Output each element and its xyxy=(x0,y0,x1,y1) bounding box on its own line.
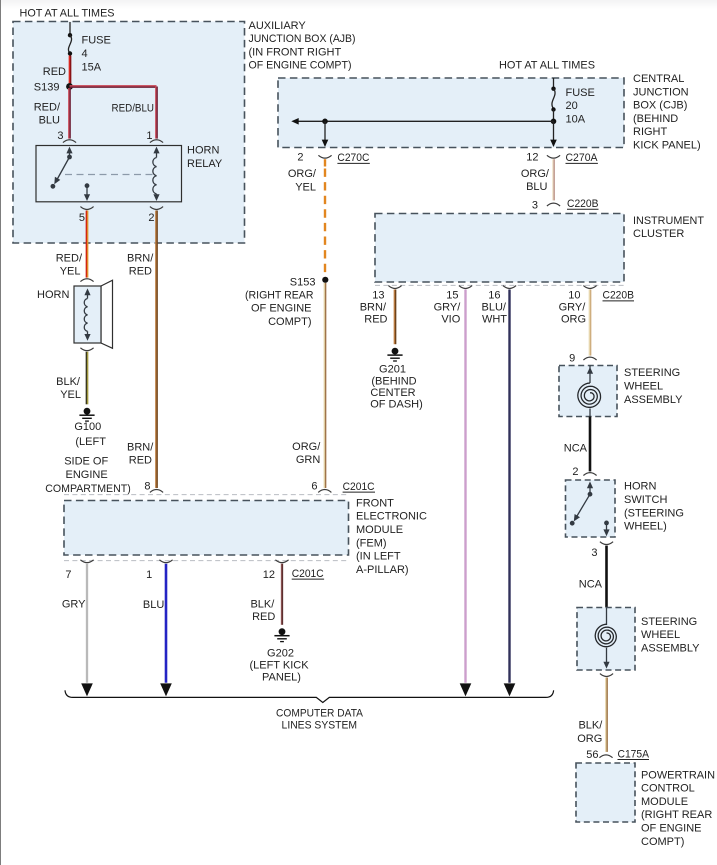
svg-text:16: 16 xyxy=(488,290,500,302)
svg-text:COMPT): COMPT) xyxy=(641,836,684,848)
pin 6 FEM xyxy=(311,481,331,493)
wire ORG/YEL (dashed) xyxy=(324,159,326,276)
ground G202 xyxy=(274,628,289,641)
front electronic module box (dashed) xyxy=(64,501,349,556)
FEM bottom connector line xyxy=(64,560,349,562)
relay coil xyxy=(153,147,160,201)
svg-text:HORN: HORN xyxy=(624,481,656,493)
FEM top connector line xyxy=(64,494,349,496)
svg-text:2: 2 xyxy=(572,466,578,478)
clockspring 2 xyxy=(595,608,616,669)
svg-text:BLK/: BLK/ xyxy=(56,376,81,388)
wire CJB bus left xyxy=(291,118,553,125)
node CJB branch xyxy=(322,119,328,125)
splice S139 xyxy=(34,82,73,94)
svg-text:1: 1 xyxy=(146,130,152,142)
label GRY xyxy=(62,598,86,610)
svg-text:G201: G201 xyxy=(379,363,406,375)
wire fuse20 down xyxy=(550,121,557,147)
svg-text:ELECTRONIC: ELECTRONIC xyxy=(356,511,427,523)
svg-text:(IN LEFT: (IN LEFT xyxy=(356,551,401,563)
label C270A xyxy=(566,152,599,164)
horn coil xyxy=(84,288,90,340)
svg-text:RED: RED xyxy=(129,266,152,278)
pin 56 connector C175A xyxy=(586,749,612,761)
label BLU xyxy=(143,599,164,611)
svg-text:GRN: GRN xyxy=(296,454,321,466)
svg-text:NCA: NCA xyxy=(579,579,603,591)
svg-text:COMPARTMENT): COMPARTMENT) xyxy=(45,483,131,495)
svg-text:3: 3 xyxy=(532,200,538,212)
pin 2 horn switch xyxy=(572,466,596,478)
svg-text:CLUSTER: CLUSTER xyxy=(633,228,684,240)
svg-text:7: 7 xyxy=(65,569,71,581)
IC bottom connector line xyxy=(375,284,624,286)
wire RED/YEL xyxy=(86,211,87,278)
ground G201 xyxy=(387,348,402,361)
AJB name label xyxy=(249,20,356,72)
svg-text:5: 5 xyxy=(79,212,85,224)
label POWERTRAIN CONTROL MODULE xyxy=(641,769,715,848)
pin 15 xyxy=(446,286,472,302)
svg-text:JUNCTION: JUNCTION xyxy=(633,86,689,98)
svg-text:9: 9 xyxy=(569,353,575,365)
svg-text:ENGINE: ENGINE xyxy=(66,469,108,481)
svg-text:RED/: RED/ xyxy=(56,252,83,264)
label BLK/YEL xyxy=(56,376,81,401)
svg-text:(RIGHT REAR: (RIGHT REAR xyxy=(245,289,314,301)
junction box CJB (dashed) xyxy=(278,78,624,148)
svg-text:BLK/: BLK/ xyxy=(250,598,275,610)
svg-text:S139: S139 xyxy=(34,82,60,94)
svg-text:(BEHIND: (BEHIND xyxy=(633,113,678,125)
pin 2 connector C270C xyxy=(297,152,331,164)
svg-text:SWITCH: SWITCH xyxy=(624,494,667,506)
wire feed to fuse 20 xyxy=(553,78,555,89)
label RED/BLU right xyxy=(112,103,155,115)
label C201C bottom xyxy=(292,568,324,580)
svg-text:WHEEL: WHEEL xyxy=(641,629,680,641)
label RED/YEL xyxy=(56,252,83,277)
wire ORG/BLU xyxy=(553,159,554,200)
svg-text:2: 2 xyxy=(148,212,154,224)
powertrain control module box (dashed) xyxy=(576,763,635,822)
svg-text:LINES SYSTEM: LINES SYSTEM xyxy=(282,719,358,731)
CJB name label xyxy=(633,73,701,152)
svg-text:ORG/: ORG/ xyxy=(521,168,550,180)
svg-text:OF ENGINE COMPT): OF ENGINE COMPT) xyxy=(249,60,352,72)
svg-text:CENTRAL: CENTRAL xyxy=(633,73,684,85)
wire GRY xyxy=(86,564,88,683)
svg-text:S153: S153 xyxy=(290,276,316,288)
svg-text:HOT AT ALL TIMES: HOT AT ALL TIMES xyxy=(499,59,595,71)
relay contact to pin 5 xyxy=(84,183,90,201)
svg-text:ORG/: ORG/ xyxy=(292,441,321,453)
horn switch contacts xyxy=(570,481,610,536)
arrow GRY/VIO to data lines xyxy=(460,683,472,696)
svg-text:RED: RED xyxy=(364,313,387,325)
svg-text:C220B: C220B xyxy=(603,290,635,302)
pin 16 xyxy=(488,286,516,302)
svg-text:BRN/: BRN/ xyxy=(127,441,154,453)
svg-text:(RIGHT REAR: (RIGHT REAR xyxy=(641,809,712,821)
svg-text:ASSEMBLY: ASSEMBLY xyxy=(624,394,683,406)
svg-text:10A: 10A xyxy=(566,113,586,125)
svg-text:ORG/: ORG/ xyxy=(288,168,317,180)
label NCA 1 xyxy=(564,442,588,454)
svg-text:YEL: YEL xyxy=(60,266,81,278)
svg-text:C201C: C201C xyxy=(292,568,324,580)
svg-text:HORN: HORN xyxy=(187,145,219,157)
pin 3 horn relay xyxy=(57,130,76,142)
brace computer data lines xyxy=(65,690,554,702)
svg-text:(FEM): (FEM) xyxy=(356,537,387,549)
svg-text:4: 4 xyxy=(82,48,88,60)
svg-text:RED: RED xyxy=(252,611,275,623)
svg-text:ASSEMBLY: ASSEMBLY xyxy=(641,642,700,654)
wire BLK/RED xyxy=(281,564,282,625)
horn connector top xyxy=(80,279,93,282)
svg-text:G202: G202 xyxy=(267,647,294,659)
SWA2 connector bottom xyxy=(600,674,613,677)
svg-text:OF ENGINE: OF ENGINE xyxy=(251,303,312,315)
arrow GRY to data lines xyxy=(81,683,93,696)
svg-text:FUSE: FUSE xyxy=(82,35,111,47)
svg-text:(LEFT KICK: (LEFT KICK xyxy=(249,659,309,671)
svg-text:FRONT: FRONT xyxy=(356,497,394,509)
svg-text:(IN FRONT RIGHT: (IN FRONT RIGHT xyxy=(249,46,342,58)
svg-text:ORG: ORG xyxy=(577,733,602,745)
svg-text:A-PILLAR): A-PILLAR) xyxy=(356,564,409,576)
wire RED/BLU right branch xyxy=(70,86,158,139)
label RED/BLU left xyxy=(34,101,61,126)
svg-text:BRN/: BRN/ xyxy=(127,252,154,264)
svg-text:HORN: HORN xyxy=(37,289,69,301)
wire RED/BLU left branch xyxy=(69,88,70,139)
svg-text:GRY/: GRY/ xyxy=(559,302,587,314)
label COMPUTER DATA LINES SYSTEM xyxy=(276,707,364,731)
label G201 (BEHIND CENTER OF DASH) xyxy=(370,363,423,410)
svg-text:HOT AT ALL TIMES: HOT AT ALL TIMES xyxy=(20,7,115,19)
svg-text:(STEERING: (STEERING xyxy=(624,507,684,519)
svg-text:WHEEL: WHEEL xyxy=(624,381,663,393)
svg-text:POWERTRAIN: POWERTRAIN xyxy=(641,769,715,781)
pin 10 xyxy=(568,286,596,302)
svg-text:56: 56 xyxy=(586,749,598,761)
svg-text:COMPUTER DATA: COMPUTER DATA xyxy=(276,707,364,719)
pin 13 xyxy=(372,286,401,302)
fuse F4 15A xyxy=(68,33,111,73)
label BRN/RED upper xyxy=(127,252,154,277)
wire ORG/GRN xyxy=(324,283,325,488)
arrow BLU/WHT to data lines xyxy=(504,683,516,696)
label GRY/ORG xyxy=(559,302,587,326)
pin 12 FEM xyxy=(263,560,289,581)
svg-text:15A: 15A xyxy=(82,61,102,73)
svg-text:MODULE: MODULE xyxy=(356,524,403,536)
svg-text:STEERING: STEERING xyxy=(641,616,697,628)
wire BLU xyxy=(165,564,168,683)
svg-text:FUSE: FUSE xyxy=(566,87,595,99)
label ORG/BLU xyxy=(521,168,550,193)
node fuse20 output xyxy=(551,119,557,125)
svg-text:3: 3 xyxy=(57,130,63,142)
label ORG/YEL xyxy=(288,168,317,193)
svg-text:BOX (CJB): BOX (CJB) xyxy=(633,100,687,112)
pin 8 FEM xyxy=(144,481,163,493)
svg-text:BLK/: BLK/ xyxy=(578,719,603,731)
label C270C xyxy=(337,152,369,164)
svg-text:WHT: WHT xyxy=(482,313,507,325)
horn switch box (dashed) xyxy=(566,480,616,537)
pin 9 SWA xyxy=(569,353,596,365)
label C175A xyxy=(618,748,650,760)
svg-text:C270C: C270C xyxy=(337,152,369,164)
svg-text:RED/BLU: RED/BLU xyxy=(112,103,155,115)
wire battery feed to fuse 4 xyxy=(69,22,71,35)
pin 3 connector C220B top xyxy=(532,200,560,212)
junction box AJB (dashed) xyxy=(13,22,245,244)
svg-text:BLU: BLU xyxy=(526,181,547,193)
relay box (horn relay) xyxy=(36,146,182,202)
svg-text:OF ENGINE: OF ENGINE xyxy=(641,823,702,835)
svg-text:15: 15 xyxy=(446,290,458,302)
svg-text:VIO: VIO xyxy=(441,313,460,325)
svg-text:RELAY: RELAY xyxy=(187,158,223,170)
svg-text:(BEHIND: (BEHIND xyxy=(371,376,416,388)
svg-text:YEL: YEL xyxy=(295,182,316,194)
pin 1 FEM xyxy=(146,560,172,581)
svg-text:CONTROL: CONTROL xyxy=(641,783,695,795)
svg-text:RIGHT: RIGHT xyxy=(633,126,668,138)
relay switch arm xyxy=(51,147,73,189)
svg-text:C270A: C270A xyxy=(566,152,599,164)
wire GRY/VIO xyxy=(464,290,466,683)
label G202 (LEFT KICK PANEL) xyxy=(249,647,309,683)
label G100 (LEFT SIDE OF ENGINE COMPARTMENT) xyxy=(45,421,131,495)
svg-text:INSTRUMENT: INSTRUMENT xyxy=(633,215,704,227)
wire BLU/WHT xyxy=(508,290,510,683)
wire BRN/RED pin13 xyxy=(394,290,395,345)
label BRN/RED pin13 xyxy=(360,302,388,326)
pin 1 horn relay xyxy=(146,130,163,142)
wire GRY/ORG xyxy=(589,290,590,356)
label S153 (RIGHT REAR OF ENGINE COMPT) xyxy=(245,276,316,328)
svg-text:13: 13 xyxy=(372,290,384,302)
svg-text:KICK PANEL): KICK PANEL) xyxy=(633,140,701,152)
splice S153 xyxy=(322,277,328,283)
svg-text:YEL: YEL xyxy=(60,389,81,401)
svg-text:SIDE OF: SIDE OF xyxy=(64,455,108,467)
label C220B top xyxy=(567,198,599,210)
label BLU/WHT xyxy=(482,302,508,326)
horn body xyxy=(74,280,113,348)
arrow BLU to data lines xyxy=(160,683,172,696)
svg-text:ORG: ORG xyxy=(561,313,586,325)
label HORN xyxy=(37,289,69,301)
wire NCA 1 xyxy=(589,417,592,472)
svg-text:OF DASH): OF DASH) xyxy=(370,398,423,410)
label HORN RELAY xyxy=(187,145,223,170)
label RED xyxy=(43,66,66,78)
svg-text:12: 12 xyxy=(263,569,275,581)
svg-text:C220B: C220B xyxy=(567,198,599,210)
label GRY/VIO xyxy=(434,302,462,326)
svg-text:2: 2 xyxy=(297,152,303,164)
svg-text:1: 1 xyxy=(146,569,152,581)
svg-text:GRY: GRY xyxy=(62,598,86,610)
svg-text:PANEL): PANEL) xyxy=(262,672,301,684)
wire CJB branch down xyxy=(322,121,329,147)
pin 12 connector C270A xyxy=(526,152,560,164)
label BLK/RED xyxy=(250,598,275,623)
svg-text:12: 12 xyxy=(526,152,538,164)
steering wheel assembly box 2 (dashed) xyxy=(577,608,635,671)
svg-text:BLU: BLU xyxy=(143,599,164,611)
label C201C top xyxy=(343,481,375,493)
svg-text:6: 6 xyxy=(311,481,317,493)
label BLK/ORG xyxy=(577,719,603,745)
label FRONT ELECTRONIC MODULE (FEM) xyxy=(356,497,427,576)
label HOT AT ALL TIMES (AJB feed) xyxy=(20,7,115,19)
svg-text:COMPT): COMPT) xyxy=(268,316,311,328)
label C220B bottom xyxy=(603,290,635,302)
fuse F20 10A xyxy=(551,87,595,126)
svg-text:MODULE: MODULE xyxy=(641,796,688,808)
svg-text:C201C: C201C xyxy=(343,481,375,493)
ground G100 xyxy=(79,408,94,421)
svg-text:RED: RED xyxy=(43,66,66,78)
pin 5 horn relay xyxy=(79,207,94,224)
svg-text:10: 10 xyxy=(568,290,580,302)
svg-text:C175A: C175A xyxy=(618,748,650,760)
pin 2 horn relay xyxy=(148,207,163,224)
svg-text:JUNCTION BOX (AJB): JUNCTION BOX (AJB) xyxy=(249,33,356,45)
label NCA 2 xyxy=(579,579,603,591)
wire NCA 2 xyxy=(605,546,608,608)
svg-text:8: 8 xyxy=(144,481,150,493)
relay actuation dashed link xyxy=(65,174,154,176)
instrument cluster box (dashed) xyxy=(375,214,624,283)
label ORG/GRN xyxy=(292,441,321,466)
label STEERING WHEEL ASSEMBLY 2 xyxy=(641,616,700,655)
wire BLK/YEL xyxy=(86,352,87,405)
pin 3 horn switch xyxy=(591,542,613,560)
svg-text:GRY/: GRY/ xyxy=(434,302,462,314)
svg-text:20: 20 xyxy=(566,100,578,112)
wire BRN/RED relay to FEM xyxy=(156,211,157,489)
svg-text:CENTER: CENTER xyxy=(370,387,415,399)
horn connector bottom xyxy=(80,348,93,351)
steering wheel assembly box 1 (dashed) xyxy=(559,366,617,417)
label BRN/RED lower xyxy=(127,441,154,466)
label HORN SWITCH (STEERING WHEEL) xyxy=(624,481,684,533)
pin 7 FEM xyxy=(65,560,93,581)
svg-text:BLU/: BLU/ xyxy=(482,302,507,314)
label INSTRUMENT CLUSTER xyxy=(633,215,704,240)
svg-text:STEERING: STEERING xyxy=(624,367,680,379)
svg-text:RED: RED xyxy=(129,455,152,467)
label HOT AT ALL TIMES (CJB feed) xyxy=(499,59,595,71)
svg-text:BRN/: BRN/ xyxy=(360,302,387,314)
svg-text:WHEEL): WHEEL) xyxy=(624,521,667,533)
svg-text:G100: G100 xyxy=(74,421,101,433)
svg-text:NCA: NCA xyxy=(564,442,588,454)
svg-text:(LEFT: (LEFT xyxy=(75,436,106,448)
svg-text:BLU: BLU xyxy=(39,115,60,127)
svg-text:RED/: RED/ xyxy=(34,101,61,113)
wire BLK/ORG xyxy=(606,678,607,752)
svg-text:AUXILIARY: AUXILIARY xyxy=(249,20,307,32)
wire RED xyxy=(69,56,70,87)
svg-text:3: 3 xyxy=(591,547,597,559)
label STEERING WHEEL ASSEMBLY 1 xyxy=(624,367,683,406)
clockspring 1 xyxy=(578,366,601,417)
